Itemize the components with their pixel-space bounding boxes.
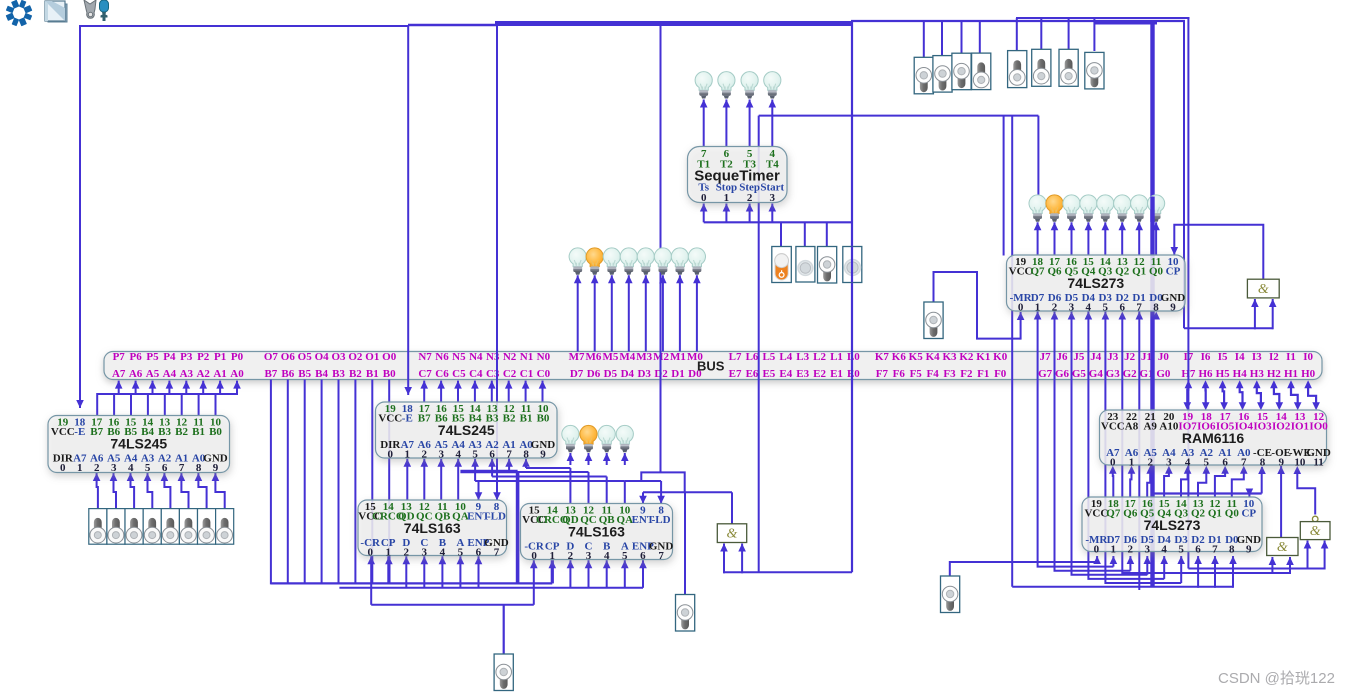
wire BUS H to RAM IO: [1291, 387, 1298, 405]
wire U4 Q fan to U2: [475, 480, 625, 482]
wire stub to button S2: [941, 21, 943, 56]
wire G4 output vertical: [731, 492, 733, 524]
push button B3: [676, 595, 695, 632]
wire into timer input pin: [703, 204, 705, 223]
arrow into U5 D pin: [1085, 312, 1093, 320]
bulb M6: [586, 248, 603, 275]
wire U2 B5 to BUS C5: [457, 381, 459, 402]
wire vertical x1188: [1187, 18, 1189, 569]
wire stub: [1054, 312, 1056, 320]
wire U4 Q fan to U2: [492, 476, 607, 478]
wire BUS H to RAM IO: [1257, 387, 1261, 405]
wire U5 D2 net to G2: [1122, 319, 1290, 574]
wire into U2 pin: [474, 459, 476, 481]
wire U6 Q to RAM A: [1181, 470, 1188, 497]
wire BUS B4 down: [321, 380, 323, 585]
round button S12: [843, 247, 862, 283]
wire branch x1012: [1011, 116, 1013, 587]
wire bundle to G3: [1188, 568, 1324, 570]
wire -LD into U4: [660, 481, 662, 504]
wire stub: [1248, 491, 1250, 494]
wire branch x1038 to bulb: [1037, 116, 1039, 198]
wire into U6 D pin: [1146, 556, 1148, 575]
wire BUS H to RAM IO: [1308, 387, 1316, 405]
wire CP into U4: [551, 560, 554, 583]
wire U1 B2 to BUS A2: [182, 381, 204, 416]
bulb U5 Q6: [1046, 195, 1063, 222]
svg-text:&: &: [1277, 540, 1288, 555]
wire data into U4: [624, 560, 626, 588]
wire U5 Q6 to bulb: [1054, 222, 1056, 255]
wire T4 net horizontal: [759, 115, 1039, 117]
wire BUS H to RAM IO: [1204, 387, 1206, 405]
wire into timer input pin: [771, 204, 773, 223]
wire BUS B7 down: [270, 380, 272, 585]
wire U6 Q to RAM A: [1215, 470, 1225, 497]
toggle switch T-ON: [772, 247, 792, 283]
wire U2 B2 to BUS C2: [508, 381, 510, 402]
AND gate G2: [1267, 538, 1298, 556]
wire into U2 pin: [491, 459, 493, 477]
wire ENT into U4: [642, 492, 644, 503]
switch bank SW0 (8 toggle pins): [89, 509, 234, 545]
wire top frame thick: [495, 21, 853, 26]
arrow into RAM -CE: [1258, 466, 1266, 474]
wire U1 B4 to BUS A4: [148, 381, 170, 416]
wire data into U4: [588, 560, 590, 588]
bulb QD: [562, 425, 579, 452]
wire into G2 input A: [1271, 557, 1273, 574]
svg-text:&: &: [1310, 524, 1321, 539]
svg-text:74LS273: 74LS273: [1067, 275, 1124, 291]
wire stub to toggle switch: [804, 222, 806, 247]
wire -LD into U3: [496, 472, 498, 501]
bulb M3: [637, 248, 654, 275]
wire U3 Q to U2 A5: [440, 459, 442, 500]
wire BUS B6 down: [287, 380, 289, 585]
wire data into U3: [441, 556, 443, 588]
wire BUS M5 to bulb: [611, 275, 613, 351]
svg-text:74LS245: 74LS245: [438, 422, 495, 438]
bulb M2: [654, 248, 671, 275]
wire stub: [1071, 312, 1073, 320]
push button B5: [941, 576, 960, 613]
wire timer output to bulb: [703, 100, 705, 147]
push button B4: [494, 654, 513, 691]
counter U3 74LS163: [358, 500, 509, 559]
wire U5/U6 D net: [1105, 319, 1181, 584]
wire U5 Q5 to bulb: [1071, 222, 1073, 255]
wire U3 Q to U2 A7: [406, 459, 408, 500]
wire U5/U6 D net: [1055, 319, 1131, 571]
wire carry thick vertical: [516, 472, 520, 585]
wire BUS H to RAM IO: [1274, 387, 1279, 405]
AND gate G1: [1247, 279, 1279, 298]
svg-text:CSDN @拾珖122: CSDN @拾珖122: [1218, 670, 1335, 687]
wire U1 B7 to BUS A7: [97, 381, 119, 416]
counter U4 74LS163: [521, 504, 674, 563]
wire switch 7 to U1 A0: [215, 473, 224, 509]
wire thick vertical x1152: [1150, 21, 1154, 587]
wire BUS B5 down: [304, 380, 306, 585]
wire G1 input feed: [1184, 327, 1273, 329]
memory U7 RAM6116: [1100, 410, 1331, 469]
svg-text:74LS163: 74LS163: [568, 524, 625, 540]
wire stub to button S3: [961, 21, 963, 54]
wire -E net to U1 pin18: [79, 26, 81, 408]
wire U4 Q vertical: [588, 472, 590, 504]
wire stub to button S8: [1093, 18, 1095, 51]
wire U5 Q2 to bulb: [1121, 222, 1123, 255]
wire button B5 to U6 -MR: [950, 562, 1097, 576]
wire x660 jog: [641, 472, 684, 492]
button S8: [1085, 52, 1104, 89]
wire top frame right: [851, 20, 1185, 22]
wire top frame mid: [408, 24, 497, 27]
button S2: [933, 56, 952, 93]
wire counter bundle h1: [271, 582, 552, 584]
wire BUS B2 down: [354, 380, 356, 585]
wire BUS M2 to bulb: [662, 275, 664, 351]
wire U5/U6 D net: [1088, 319, 1164, 579]
bulb M0: [688, 248, 705, 275]
wire stub to button S7: [1068, 18, 1070, 51]
wire to U4 -LD: [625, 480, 661, 482]
wire vertical x852: [851, 21, 853, 572]
wire BUS M4 to bulb: [628, 275, 630, 351]
arrow into U6 CP: [1248, 493, 1250, 497]
wire branch x1003: [1003, 116, 1005, 256]
svg-text:74LS163: 74LS163: [404, 520, 461, 536]
wire ENT into U3: [478, 481, 480, 500]
wire into U2 pin: [508, 459, 510, 472]
wire switch 4 to U1 A3: [164, 473, 170, 509]
wire stub: [1037, 312, 1039, 320]
wire U5/U6 D net: [1038, 319, 1114, 567]
wire U6 Q to RAM A: [1112, 470, 1115, 497]
button S11: [818, 247, 837, 284]
wire data into U4: [569, 560, 571, 588]
buffer U1 74LS245: [48, 416, 230, 475]
wire U6 Q to RAM A: [1198, 470, 1206, 497]
wire vertical x497: [496, 24, 498, 472]
wire G4 input bundle: [723, 571, 852, 573]
wire into G4 input A: [723, 544, 725, 574]
wire thick over bulb: [1150, 197, 1154, 223]
wire into G1 input A: [1254, 299, 1256, 329]
bulb M7: [569, 248, 586, 275]
wire arrow into U5 -MR: [1020, 312, 1022, 340]
bulb T4: [764, 72, 781, 99]
wire G3 output to RAM -WE: [1297, 472, 1315, 515]
arrow into U5 D pin: [1034, 312, 1042, 320]
wire U1 B1 to BUS A1: [199, 381, 221, 416]
arrow into U5 D pin: [1068, 312, 1076, 320]
wire switch 2 to U1 A5: [131, 473, 135, 509]
wire U2 B0 to BUS C0: [542, 381, 544, 402]
bulb QC: [580, 425, 597, 452]
bulb QA: [616, 425, 633, 452]
wire carry thick horizontal: [460, 470, 517, 474]
wire bundle L6: [1012, 586, 1233, 588]
wire U6 CP net: [1153, 492, 1262, 494]
wire U2 B7 to BUS C7: [423, 381, 425, 402]
arrow into U6 -MR: [1096, 556, 1098, 563]
wire into bulb: [588, 453, 590, 465]
wire BUS B3 down: [338, 380, 340, 585]
wire U5/U6 D net: [1072, 319, 1148, 575]
svg-text:RAM6116: RAM6116: [1182, 430, 1244, 446]
wire U6 Q to RAM A: [1130, 470, 1131, 497]
wire stub: [1261, 467, 1263, 473]
wire U1 B3 to BUS A3: [165, 381, 187, 416]
wire button to U5 -MR: [934, 272, 1021, 339]
wire stub to button S5: [1016, 18, 1018, 51]
svg-text:74LS245: 74LS245: [110, 436, 167, 452]
wire U4 Q vertical: [569, 468, 571, 504]
bulb U5 Q0: [1148, 195, 1165, 222]
wire U5 Q7 to bulb: [1037, 222, 1039, 255]
button S7: [1059, 49, 1078, 86]
wire U2 B1 to BUS C1: [525, 381, 527, 402]
wire switch 0 to U1 A7: [97, 473, 98, 509]
toolbar icon: document: [45, 1, 67, 22]
wire stub CP: [1173, 247, 1175, 255]
wire into timer input pin: [749, 204, 751, 223]
wire into U6 D pin: [1180, 556, 1182, 583]
bulb U5 Q7: [1029, 195, 1046, 222]
arrow into U5 D pin: [1051, 312, 1059, 320]
wire vertical x660: [660, 24, 662, 472]
wire switch 1 to U1 A6: [114, 473, 117, 509]
svg-text:&: &: [1258, 282, 1269, 297]
wire into U6 D pin low: [1214, 556, 1216, 588]
wire BUS M7 to bulb: [577, 275, 579, 351]
wire into U6 D pin low: [1197, 556, 1199, 588]
svg-text:BUS: BUS: [697, 359, 725, 374]
wire stub to toggle switch: [780, 222, 782, 247]
wire stub: [1087, 312, 1089, 320]
toolbar icon: settings burst: [6, 0, 33, 26]
wire U6 Q to RAM A: [1164, 470, 1169, 497]
wire top right thick stub: [1094, 21, 1157, 25]
wire reset net horizontal: [371, 604, 534, 606]
wire data into U4: [642, 560, 644, 588]
wire switch 3 to U1 A4: [148, 473, 153, 509]
arrow into RAM -WE: [1294, 466, 1302, 474]
wire U4 Q vertical: [624, 481, 626, 504]
wire U4 Q vertical: [606, 477, 608, 504]
wire into U6 D pin: [1129, 556, 1131, 571]
wire G4 output net: [643, 491, 732, 493]
wire timer output to bulb: [725, 100, 727, 147]
wire into G1 input B: [1272, 299, 1274, 329]
wire G1 output to U5 CP: [1174, 225, 1263, 279]
button S6: [1032, 49, 1051, 86]
wire U1 B0 to BUS A0: [216, 381, 238, 416]
wire U6 Q to RAM A: [1232, 470, 1244, 497]
wire BUS H to RAM IO: [1223, 387, 1225, 405]
bulb U5 Q3: [1097, 195, 1114, 222]
register U6 74LS273: [1082, 497, 1262, 556]
wire U2 B4 to BUS C4: [474, 381, 476, 402]
wire U5 Q0 to bulb: [1155, 222, 1157, 255]
wire into U6 D pin: [1163, 556, 1165, 579]
wire button B3 net: [684, 492, 686, 594]
arrow into U5 CP: [1171, 247, 1179, 255]
wire -E net to U2 pin18: [407, 25, 409, 395]
wire U5 Q3 to bulb: [1104, 222, 1106, 255]
wire -CR into U4: [533, 560, 535, 605]
wire G2 output to RAM -OE: [1280, 466, 1282, 538]
wire data into U3: [423, 556, 425, 588]
wire into G3 input A: [1307, 541, 1309, 570]
wire into G2 input B: [1289, 557, 1291, 574]
bulb M5: [603, 248, 620, 275]
wire data into U3: [478, 556, 480, 588]
wire U1 B6 to BUS A6: [114, 381, 136, 416]
wire switch 6 to U1 A1: [198, 473, 206, 509]
wire BUS M6 to bulb: [594, 275, 596, 351]
wire counter bundle h2: [339, 587, 643, 589]
wire into G3 input B: [1324, 541, 1326, 570]
wire stub to toggle switch: [826, 222, 828, 247]
bulb M1: [671, 248, 688, 275]
wire into G4 input B: [741, 544, 743, 574]
button S5: [1008, 51, 1027, 88]
wire BUS M1 to bulb: [679, 275, 681, 351]
wire timer output to bulb: [771, 100, 773, 147]
wire stub to button S1: [923, 21, 925, 58]
wire into U2 pin: [525, 459, 527, 468]
wire stub to button S4: [979, 21, 981, 53]
wire stub to button S6: [1040, 18, 1042, 51]
wire U4 Q fan to U2: [526, 467, 570, 469]
wire into bulb: [606, 453, 608, 465]
wire BUS M0 to bulb: [696, 275, 698, 351]
wire to RAM -CE: [1261, 472, 1263, 494]
wire data into U3: [459, 556, 461, 588]
wire BUS H to RAM IO: [1240, 387, 1243, 405]
BUS bar: [104, 352, 1322, 380]
wire into bulb: [569, 453, 571, 465]
wire timer input bus: [704, 221, 853, 223]
wire U5 Q1 to bulb: [1138, 222, 1140, 255]
bulb T3: [741, 72, 758, 99]
arrow into U5 D2: [1119, 312, 1127, 320]
bulb M4: [620, 248, 637, 275]
wire switch 5 to U1 A2: [181, 473, 188, 509]
register U5 74LS273: [1007, 255, 1186, 314]
bulb T1: [695, 72, 712, 99]
bulb T2: [718, 72, 735, 99]
wire BUS B0 down: [388, 380, 390, 585]
wire vertical x758 through timer: [758, 116, 760, 573]
round button S10: [796, 247, 815, 283]
wire data into U4: [606, 560, 608, 588]
wire U2 B3 to BUS C3: [491, 381, 493, 402]
AND gate G4: [717, 524, 746, 543]
arrow into U5 D0: [1152, 312, 1160, 320]
wire U3 Q to U2 A4: [457, 459, 459, 500]
buffer U2 74LS245: [376, 402, 558, 461]
wire U5 Q4 to bulb: [1087, 222, 1089, 255]
NAND gate G3: [1300, 516, 1330, 539]
wire BUS M3 to bulb: [645, 275, 647, 351]
button S1: [914, 57, 933, 94]
wire reset button net: [503, 605, 505, 655]
wire into U6 D pin low: [1232, 556, 1234, 588]
wire data into U3: [405, 556, 407, 588]
wire U6 Q to RAM A: [1147, 470, 1150, 497]
svg-text:&: &: [727, 527, 738, 542]
wire over toggle box: [851, 247, 853, 283]
wire vertical x1184: [1183, 21, 1185, 328]
wire U3 Q to U2 A6: [423, 459, 425, 500]
bulb QB: [598, 425, 615, 452]
wire -CR into U3: [370, 556, 372, 605]
push button B2: [924, 302, 943, 339]
timer U8 SequeTimer: [688, 147, 788, 205]
toolbar icon: tools: [84, 0, 109, 21]
wire BUS B1 down: [371, 380, 373, 585]
button S3: [952, 53, 971, 89]
wire into timer input pin: [725, 204, 727, 223]
wire U4 Q fan to U2: [509, 471, 588, 473]
wire stub: [1104, 312, 1106, 320]
bulb U5 Q2: [1114, 195, 1131, 222]
bulb U5 Q1: [1131, 195, 1148, 222]
svg-text:74LS273: 74LS273: [1144, 517, 1201, 533]
wire into U6 D pin: [1112, 556, 1114, 567]
wire U2 B6 to BUS C6: [440, 381, 442, 402]
wire into U5 D1: [1138, 312, 1140, 591]
button S4: [972, 53, 991, 90]
wire U1 B5 to BUS A5: [131, 381, 153, 416]
bulb U5 Q5: [1063, 195, 1080, 222]
wire into bulb: [624, 453, 626, 465]
wire CP into U3: [387, 556, 390, 583]
wire top frame left: [79, 25, 409, 27]
bulb U5 Q4: [1080, 195, 1097, 222]
wire timer output to bulb: [749, 100, 751, 147]
wire top right upper: [1016, 17, 1190, 19]
wire BUS H to RAM IO: [1187, 387, 1188, 405]
arrow into U5 D pin: [1102, 312, 1110, 320]
